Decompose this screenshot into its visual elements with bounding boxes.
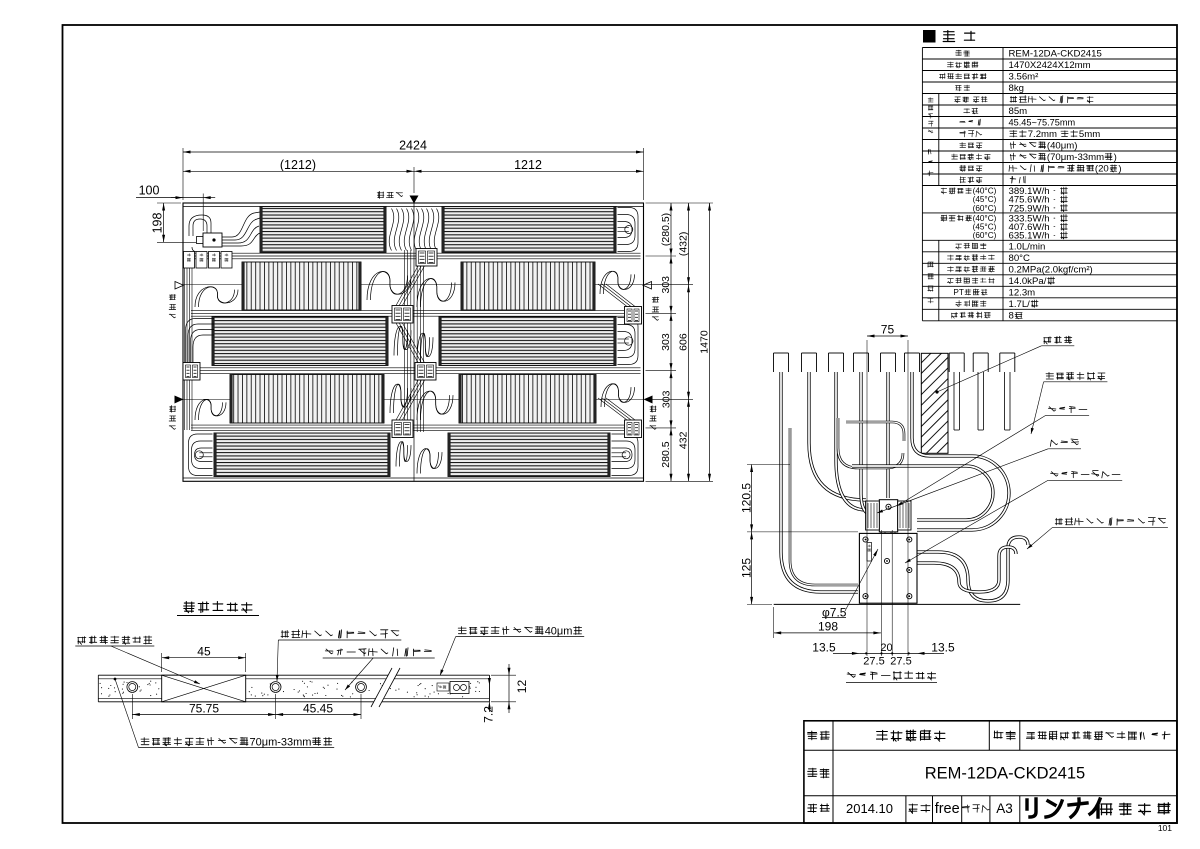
pipe top tabs (774, 353, 1015, 372)
dimension 45 cross-section (162, 644, 246, 672)
band 1 pipe U-turn loops right end (618, 208, 639, 252)
extension lines header detail (747, 340, 908, 656)
extension lines top dims (183, 148, 644, 231)
dimension 75 header (867, 322, 908, 337)
svg-text:(280.5): (280.5) (660, 213, 672, 246)
svg-text:45.45~75.75mm: 45.45~75.75mm (1009, 118, 1076, 128)
pipe 1b inner elbow bottom-left (790, 428, 858, 585)
fold mark 山折り right (643, 282, 659, 321)
svg-text:75.75: 75.75 (189, 701, 219, 715)
heating panel band 1 left block (260, 207, 386, 253)
svg-text:198: 198 (818, 619, 838, 633)
heating panel band 3 left block (212, 317, 388, 366)
label フォームポリスチレン (323, 648, 435, 690)
band 3 pipe U-turn loops right end (618, 318, 639, 365)
pipe connector box 2 (392, 306, 413, 324)
mat outline (183, 203, 644, 481)
svg-text:75: 75 (881, 322, 895, 336)
title block 2014.10 (846, 801, 893, 816)
heating panel band 2 left block (242, 262, 361, 310)
mountain fold crease line (183, 284, 644, 286)
svg-text:8: 8 (1009, 311, 1014, 322)
dimension 75.75 (132, 694, 275, 719)
heating panel band 2 right block (461, 262, 595, 310)
label 放熱材（アルミ箔40μm） (440, 625, 584, 675)
dimension 198 (150, 203, 196, 242)
mat left edge pipe bundle (185, 268, 193, 430)
svg-text:120.5: 120.5 (739, 483, 753, 513)
pipe 7 inner loop right flange (852, 466, 993, 520)
pipe 5 into header top (886, 372, 889, 498)
spec table title ■仕様 (923, 30, 975, 43)
svg-text:2014.10: 2014.10 (846, 801, 893, 816)
dimension column 432/606 right (678, 203, 690, 481)
svg-text:45: 45 (197, 644, 211, 658)
svg-text:PT: PT (953, 288, 963, 297)
dimension φ7.5 (822, 549, 878, 619)
pipe 2 elbow into header flange (809, 372, 866, 500)
heating panel band 5 left block (214, 433, 390, 477)
dimension 2424 (183, 138, 644, 153)
pipe 4 elbow into header flange (861, 372, 876, 516)
svg-text:303: 303 (660, 390, 672, 408)
svg-text:A3: A3 (996, 801, 1013, 816)
title block サイズ (962, 805, 989, 813)
header detail baseline (774, 603, 1021, 605)
pipe connector box 6 (392, 420, 413, 438)
svg-text:80°C: 80°C (1009, 253, 1031, 264)
svg-text:13.5: 13.5 (931, 640, 955, 654)
svg-text:27.5: 27.5 (890, 655, 911, 667)
svg-text:8kg: 8kg (1009, 83, 1024, 94)
header body (879, 500, 897, 532)
pipe 1 elbow to header cover bottom-left (781, 372, 858, 592)
label 小根太 (935, 336, 1074, 394)
heating panel band 4 left block (230, 375, 384, 424)
dimensions 27.5 20 27.5 (859, 642, 917, 668)
mat center fold line (413, 203, 415, 481)
pipe connector box 5 (415, 363, 436, 381)
svg-text:432: 432 (678, 431, 690, 449)
band 1 fold-zone serpentine crossing (389, 209, 439, 251)
dimension 125 (739, 532, 753, 605)
dimension (1212) (183, 158, 414, 173)
title block free (935, 801, 960, 817)
fold mark 山折り left (169, 282, 183, 318)
band 4 fold-zone serpentine crossing (390, 384, 411, 413)
svg-text:40μm: 40μm (545, 625, 573, 637)
dimension 12 cross-section (491, 664, 529, 713)
page number 101 (1158, 823, 1172, 833)
svg-text:1212: 1212 (514, 158, 542, 172)
aluminium auxiliary strips right (954, 372, 1010, 430)
title block 名称 (808, 731, 830, 740)
label 架橋ポリエチレンパイプ (1027, 518, 1168, 550)
dimension 13.5 right (917, 640, 955, 655)
dimension 13.5 left (812, 640, 859, 655)
svg-text:REM-12DA-CKD2415: REM-12DA-CKD2415 (1009, 49, 1102, 60)
label ヘッダーカバー (905, 471, 1122, 564)
header cross-section right (437, 682, 469, 694)
svg-text:REM-12DA-CKD2415: REM-12DA-CKD2415 (925, 765, 1085, 783)
pipe 8 exit S-curve bottom right (917, 537, 1028, 601)
svg-text:1470X2424X12mm: 1470X2424X12mm (1009, 60, 1091, 71)
spec table rows (939, 49, 1121, 322)
valley fold crease line (183, 398, 644, 400)
svg-text:303: 303 (660, 276, 672, 294)
mat fold-zone pipe bundles (404, 250, 423, 432)
label 小根太（合板） (75, 636, 200, 684)
band 2 pipe U-turn loops left end (195, 287, 238, 307)
band 3 fold-zone serpentine crossing (394, 326, 411, 355)
svg-text:free: free (935, 801, 960, 817)
header side flanges (866, 501, 911, 530)
band 4 pipe U-turn loops left end (195, 400, 226, 420)
svg-text:(20: (20 (1095, 164, 1109, 175)
svg-text:1.7L/: 1.7L/ (1009, 299, 1031, 310)
dimension 120.5 (739, 465, 753, 532)
svg-text:3.56m²: 3.56m² (1009, 72, 1040, 83)
svg-text:198: 198 (150, 212, 164, 233)
extension lines right dims (646, 203, 714, 481)
svg-text:(432): (432) (678, 232, 690, 257)
heating panel band 4 right block (459, 375, 596, 424)
band 3 pipe U-turn loops left end (186, 319, 215, 366)
pipe central U nest (846, 422, 904, 441)
label 放熱補助部材 (1031, 372, 1108, 434)
dimension 1212 (414, 158, 644, 173)
pipe 3 elbow into header flange (836, 372, 866, 510)
dimension 1470 (699, 203, 711, 481)
title ヘッダー部詳細図 (846, 671, 937, 682)
band 2 pipe U-turn loops right end (600, 271, 635, 294)
legend connector boxes left (184, 252, 233, 269)
dimension 198 header (774, 619, 881, 634)
band 5 fold-zone serpentine crossing (396, 442, 411, 467)
pipe connector box 3 (625, 307, 642, 325)
title block 型式 (808, 768, 829, 778)
svg-text:12.3m: 12.3m (1009, 288, 1036, 299)
spec group label マット (928, 149, 933, 176)
svg-text:2424: 2424 (399, 138, 427, 152)
heating panel band 3 right block (439, 317, 616, 366)
svg-text:45.45: 45.45 (303, 701, 333, 715)
title block 高効率小根太入り温水マット (1026, 731, 1170, 740)
mat band boundary pipe runs (191, 253, 641, 431)
joist hatch rect in header detail (921, 353, 948, 453)
band 5 pipe U-turn loops left end (189, 434, 213, 476)
spec group label 設計関係 (928, 262, 934, 303)
title block grid (804, 721, 1177, 823)
pipe connector box 4 (183, 363, 200, 381)
svg-text:): ) (1118, 164, 1121, 175)
svg-text:125: 125 (739, 558, 753, 578)
pipe connector box 7 (625, 420, 642, 438)
svg-text:14.0kPa/: 14.0kPa/ (1009, 276, 1047, 287)
svg-text:(60°C): (60°C) (973, 231, 997, 240)
svg-text:(60°C): (60°C) (973, 204, 997, 213)
fold mark 谷折り left lower (169, 396, 183, 430)
band 2 fold-zone serpentine crossing (367, 272, 411, 300)
svg-text:635.1W/h: 635.1W/h (1009, 231, 1050, 242)
svg-text:(70μm-33mm: (70μm-33mm (1047, 152, 1104, 163)
svg-text:27.5: 27.5 (863, 655, 884, 667)
cross-section mat strip (98, 675, 489, 702)
svg-text:85m: 85m (1009, 106, 1028, 117)
title 断面詳細図 (177, 602, 259, 616)
svg-text:101: 101 (1158, 823, 1172, 833)
title block リンナイ株式会社 (1027, 799, 1170, 817)
band 5 pipe U-turn loops right end (612, 434, 639, 476)
svg-text:7.2mm: 7.2mm (1028, 129, 1057, 140)
pipe connector box 1 (416, 249, 437, 267)
diagonal pipe fans across folds (396, 266, 635, 420)
pipe circles cross-section (127, 682, 367, 693)
spec group label 放熱コイル (928, 98, 933, 133)
heating panel band 1 right block (442, 207, 616, 253)
svg-text:280.5: 280.5 (660, 441, 672, 467)
svg-text:13.5: 13.5 (812, 640, 836, 654)
svg-text:100: 100 (139, 183, 160, 197)
title block 作成 (808, 804, 830, 813)
dimension 100 (136, 183, 215, 199)
dimension 7.2 cross-section (481, 675, 495, 723)
dimension 45.45 (276, 694, 361, 719)
band 4 pipe U-turn loops right end (601, 384, 635, 407)
label ヘッダー (897, 407, 1089, 507)
svg-text:20: 20 (880, 642, 892, 654)
svg-text:1470: 1470 (699, 330, 711, 354)
svg-text:(1212): (1212) (280, 158, 316, 172)
title block 品名 (994, 731, 1016, 740)
spec table grid (922, 48, 1177, 321)
svg-text:1.0L/min: 1.0L/min (1009, 242, 1046, 253)
break marks (371, 668, 400, 707)
svg-text:7.2: 7.2 (481, 706, 495, 723)
svg-text:303: 303 (660, 333, 672, 351)
cross-section stipple dots (100, 681, 480, 698)
inlet header assembly top-left (189, 212, 260, 252)
label バンド (877, 439, 1081, 513)
header outlet stubs (881, 532, 895, 547)
svg-text:70μm-33mm: 70μm-33mm (250, 736, 312, 748)
svg-text:12: 12 (515, 680, 529, 694)
title block A3 (996, 801, 1013, 816)
pipe 6 outer loop over header to right flange (912, 372, 1009, 530)
svg-text:5mm: 5mm (1079, 129, 1100, 140)
svg-text:): ) (1114, 152, 1117, 163)
title block REM-12DA-CKD2415 (925, 765, 1085, 783)
svg-text:0.2MPa(2.0kgf/cm²): 0.2MPa(2.0kgf/cm²) (1009, 265, 1093, 276)
pipe 9 exit S-curve bottom right inner (917, 547, 1016, 592)
fold mark 谷折り top (377, 191, 418, 203)
title block 尺度 (909, 804, 930, 813)
heating panel band 5 right block (448, 433, 610, 477)
svg-text:606: 606 (678, 333, 690, 351)
fold mark 谷折り right lower (644, 396, 657, 430)
header cover (859, 533, 917, 603)
title block 外形寸法図 (877, 730, 946, 741)
joist box with X cross-section (162, 675, 246, 702)
label 放熱補助材（アルミ箔70μm-33mm巾） (114, 678, 335, 749)
label 架橋ポリエチレンパイプ (276, 630, 402, 681)
dimension column 280.5/303 right (660, 203, 672, 481)
svg-text:(40μm): (40μm) (1047, 141, 1078, 152)
